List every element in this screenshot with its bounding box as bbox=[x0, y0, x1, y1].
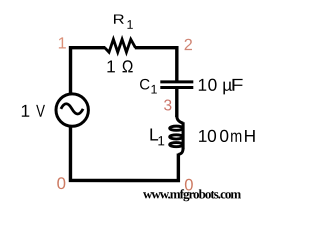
svg-text:0: 0 bbox=[219, 126, 229, 146]
svg-text:H: H bbox=[244, 126, 256, 146]
svg-text:3: 3 bbox=[164, 97, 173, 114]
svg-text:0: 0 bbox=[208, 75, 218, 95]
svg-text:1: 1 bbox=[58, 35, 67, 53]
svg-text:m: m bbox=[230, 126, 242, 146]
svg-text:1: 1 bbox=[150, 83, 157, 97]
svg-text:C: C bbox=[139, 76, 150, 93]
svg-text:V: V bbox=[36, 101, 45, 121]
svg-text:1: 1 bbox=[198, 126, 208, 146]
svg-text:0: 0 bbox=[57, 174, 66, 193]
svg-text:Ω: Ω bbox=[122, 56, 134, 76]
svg-text:F: F bbox=[231, 75, 244, 95]
svg-text:www.mfgrobots.com: www.mfgrobots.com bbox=[143, 186, 241, 201]
svg-text:1: 1 bbox=[157, 133, 165, 148]
svg-text:1: 1 bbox=[127, 18, 134, 32]
svg-text:0: 0 bbox=[207, 126, 217, 146]
svg-text:R: R bbox=[113, 12, 125, 27]
svg-text:1: 1 bbox=[198, 75, 208, 95]
svg-text:1: 1 bbox=[20, 101, 30, 121]
svg-text:2: 2 bbox=[184, 36, 193, 54]
svg-text:1: 1 bbox=[106, 56, 116, 76]
